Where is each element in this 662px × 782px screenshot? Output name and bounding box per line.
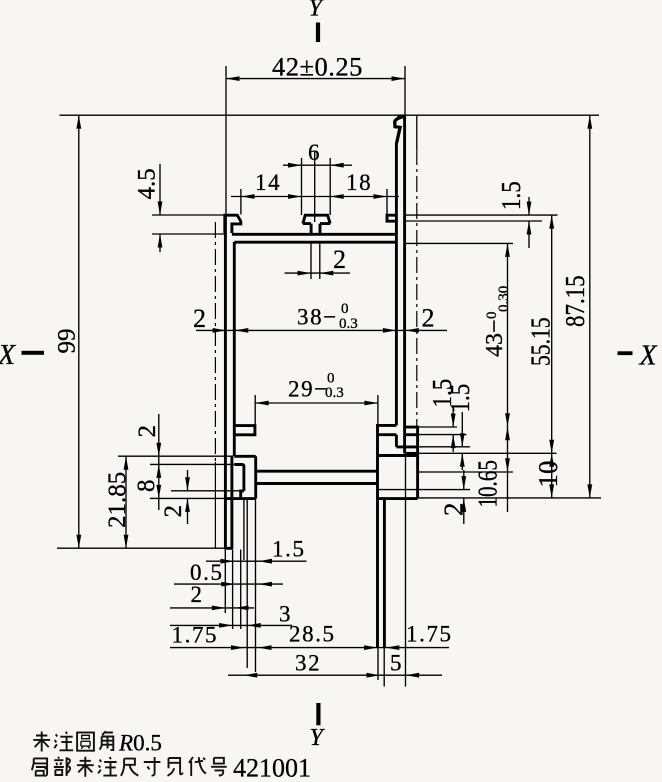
dim line 2/38/2 y=330 <box>196 329 447 331</box>
arrows 2/38/2 <box>213 328 227 333</box>
svg-text:2: 2 <box>191 582 204 607</box>
extension x=378 below leg <box>377 648 379 680</box>
axis X right <box>618 351 633 355</box>
arrows 2 bottom-left <box>212 606 226 611</box>
arrows 0.5 bottom-left <box>221 582 235 587</box>
arrows 55.15 dim <box>549 215 554 229</box>
profile right wall top cap <box>398 114 406 117</box>
profile bottom web bottom face <box>256 482 378 485</box>
leader 2 right upper <box>463 470 465 490</box>
bottom-left reference line y=548 <box>57 547 232 549</box>
svg-text:X: X <box>0 340 16 371</box>
arrows 99 dim <box>76 115 81 129</box>
profile interlock foot <box>241 491 244 499</box>
extension line x=405 (42 dim right) <box>404 66 406 115</box>
axis Y bottom <box>316 703 320 725</box>
leader 1.5 r2 lower <box>461 453 463 470</box>
extension x=255.2 above hook <box>254 395 256 426</box>
dim line 2 tongue <box>285 272 351 274</box>
arrows 2 l1 <box>156 443 161 457</box>
svg-text:1.5: 1.5 <box>497 181 526 210</box>
profile interlock right face <box>254 456 257 498</box>
svg-text:32: 32 <box>295 651 321 676</box>
centre extension x=314.7 <box>314 152 316 222</box>
dim line 6 <box>283 164 352 166</box>
dim line 87.15 <box>589 115 591 498</box>
profile bottom web top face <box>256 470 378 473</box>
extension line x=226 (42 dim left) <box>225 66 227 214</box>
extension y=490.8 left <box>171 490 241 492</box>
svg-text:0: 0 <box>341 301 349 317</box>
arrows 3 bottom-left <box>219 623 233 628</box>
extension stem right <box>319 243 321 279</box>
extension y=464.4 left <box>150 463 234 465</box>
arrows 14 dim <box>241 194 255 199</box>
svg-text:42±0.25: 42±0.25 <box>272 52 363 82</box>
bottom-left extension x=234.3 <box>240 550 242 630</box>
bottom-left extension x=243.8 <box>243 499 245 560</box>
leader 4.5 upper <box>159 164 161 215</box>
extension y=453.3 right <box>406 452 557 454</box>
arrows 1.75 left / 28.5 / 1.75 right <box>231 645 245 650</box>
leader 1.5 top-right lower <box>528 221 530 248</box>
profile right flange <box>387 215 396 221</box>
svg-text:X: X <box>639 341 658 372</box>
bottom-left extension x=255.8 <box>255 499 257 672</box>
dim line 43 and 10.65 x=507.5 <box>507 243 509 512</box>
extension y=215 left for 4.5 <box>152 214 224 216</box>
extension y=434.6 right <box>406 434 467 436</box>
profile leg right face <box>383 499 386 648</box>
svg-text:1.75: 1.75 <box>172 623 219 648</box>
extension x=384.2 below leg <box>383 648 385 687</box>
dim line 42±0.25 <box>226 78 405 80</box>
svg-text:38−: 38− <box>297 305 338 330</box>
profile interlock bottom <box>225 497 255 500</box>
profile centre tongue cap <box>303 215 330 223</box>
leader 1.5 r1 lower <box>452 435 454 452</box>
arrows 21.85 dim <box>124 456 129 470</box>
arrows 32 / 5 <box>244 673 257 678</box>
svg-text:43−: 43− <box>482 319 508 357</box>
profile left wall inner face <box>233 242 236 456</box>
arrows 87.15 dim <box>587 115 592 129</box>
extension y=446.8 right <box>418 446 470 448</box>
profile right hook bottom <box>378 433 397 436</box>
leader 2 l2 lower <box>187 498 189 524</box>
profile right wall inner face <box>395 143 398 426</box>
arrows 2 l2 <box>185 477 190 491</box>
arrows 1.5 r2 <box>460 433 465 447</box>
svg-text:21.85: 21.85 <box>104 472 131 528</box>
svg-text:R0.5: R0.5 <box>118 731 162 756</box>
dim line 21.85 <box>125 456 127 548</box>
extension x=387 for 18 <box>386 189 388 215</box>
extension x=330.2 for 6/18 <box>329 158 331 215</box>
extension y=427 right <box>406 426 457 428</box>
svg-text:2: 2 <box>422 304 435 333</box>
dim line 0.5 bottom-left <box>174 583 283 585</box>
profile tab2 top <box>396 445 417 448</box>
svg-text:2: 2 <box>333 245 346 274</box>
leader 1.5 r2 upper <box>461 412 463 447</box>
profile interlock channel <box>234 465 244 491</box>
phantom line right solid top <box>416 116 418 149</box>
arrows 1.5 bottom-left <box>221 559 235 564</box>
leader 4.5 lower <box>159 234 161 252</box>
profile left flange <box>225 215 241 233</box>
dim line 2 bottom-left <box>170 607 254 609</box>
extension y=215 right for 1.5/55.15 <box>406 214 558 216</box>
arrows 2 tongue <box>298 271 312 276</box>
profile top plate top face <box>232 233 397 236</box>
profile block right face <box>416 435 419 499</box>
extension x=405.5 right of leg <box>405 455 407 687</box>
profile block top <box>378 454 418 457</box>
extension stem left <box>310 243 312 279</box>
svg-text:2: 2 <box>160 505 187 518</box>
svg-text:2: 2 <box>134 425 161 438</box>
profile centre tongue stem <box>311 224 320 235</box>
svg-text:10.65: 10.65 <box>473 460 503 507</box>
arrows 18 dim <box>330 194 344 199</box>
svg-text:1.75: 1.75 <box>406 622 453 647</box>
dim line 99 <box>78 115 80 548</box>
arrows 1.5 r1 <box>451 414 456 428</box>
profile right wall outer face <box>403 116 406 454</box>
svg-text:14: 14 <box>255 170 281 195</box>
svg-text:1.5: 1.5 <box>446 384 475 413</box>
dim line 1.5 bottom-left <box>206 560 307 562</box>
leader 1.5 top-right upper <box>528 197 530 215</box>
profile leg left face <box>376 499 379 648</box>
dim line 3 bottom-left <box>170 624 292 626</box>
extension y=489.6 right <box>418 489 470 491</box>
arrows 10 dim <box>549 453 554 467</box>
profile tab1 <box>405 427 418 435</box>
extension y=243.4 right for 43 <box>406 242 513 244</box>
note line 2: 局部未注尺寸见代号 421001 <box>32 758 47 775</box>
arrows 6 dim <box>288 163 302 168</box>
leader 2 right lower <box>463 498 465 524</box>
arrows 1.5 top-right <box>527 202 532 216</box>
profile block bottom <box>376 497 417 500</box>
svg-text:18: 18 <box>346 170 372 195</box>
extension y=498.4 left <box>150 497 225 499</box>
svg-text:4.5: 4.5 <box>134 168 161 199</box>
svg-text:55.15: 55.15 <box>526 317 556 366</box>
svg-text:0.3: 0.3 <box>325 385 344 401</box>
svg-text:2: 2 <box>439 503 469 517</box>
svg-text:5: 5 <box>390 651 403 676</box>
bottom-right reference line y=498 <box>418 497 601 499</box>
svg-text:10: 10 <box>533 461 563 488</box>
svg-text:421001: 421001 <box>233 754 311 782</box>
arrows 29 dim <box>255 401 269 406</box>
arrows 8 dim <box>156 464 161 478</box>
svg-text:8: 8 <box>133 480 160 493</box>
extension y=234 left for 4.5 <box>152 233 226 235</box>
extension x=377.9 above hook <box>377 395 379 425</box>
dash-dot phantom line left <box>214 222 216 462</box>
bottom-left extension x=231.9 <box>232 550 234 629</box>
arrows 4.5 dim <box>158 202 163 216</box>
solid lower part of left phantom <box>214 462 216 548</box>
arrows 43 dim <box>505 243 510 257</box>
leader 2 l1 upper <box>158 414 160 456</box>
dim line 14 and 18 <box>231 196 399 198</box>
profile right hook top and block left face <box>378 425 397 498</box>
dim line 1.75/28.5/1.75 <box>170 647 449 649</box>
svg-text:0.30: 0.30 <box>496 286 512 312</box>
note line 1: 未注圆角 R0.5 <box>33 732 50 752</box>
dim line 29 y=403 <box>255 402 378 404</box>
svg-text:99: 99 <box>54 329 81 354</box>
svg-text:2: 2 <box>193 304 206 333</box>
profile left fin end cap <box>224 547 233 550</box>
profile interlock top <box>234 455 255 458</box>
bottom-left extension x=225.9 <box>224 550 226 613</box>
svg-text:0.3: 0.3 <box>339 316 358 332</box>
bottom-left extension x=238.6 <box>246 499 248 668</box>
svg-text:29−: 29− <box>288 377 329 402</box>
profile tab2 bottom <box>405 452 418 455</box>
extension y=472 right <box>418 471 513 473</box>
dim line 8 <box>158 456 160 510</box>
extension y=221 right <box>406 220 542 222</box>
leader 2 l2 upper <box>187 470 189 491</box>
dim line 55.15 and 10 x=551.7 <box>551 215 553 498</box>
extension y=456.2 left <box>118 455 233 457</box>
arrows 10.65 dim <box>505 427 510 441</box>
profile left hook <box>234 426 255 435</box>
profile left wall outer face <box>224 215 227 548</box>
leader 1.5 r1 upper <box>452 407 454 427</box>
extension x=301.5 for 6/14 <box>301 158 303 215</box>
svg-text:28.5: 28.5 <box>289 622 336 647</box>
dash-dot phantom line right <box>416 149 418 427</box>
svg-text:1.5: 1.5 <box>272 537 306 562</box>
profile right wall inner segment <box>395 435 398 447</box>
arrows 42 dim <box>226 76 240 81</box>
profile top plate bottom face <box>234 241 396 244</box>
profile left lower fin inner face <box>230 456 233 548</box>
dim line 32/5 <box>228 674 442 676</box>
internal edge y=489.6 <box>378 489 417 491</box>
svg-text:6: 6 <box>308 140 321 165</box>
top reference line y=115 <box>60 114 600 116</box>
svg-text:87.15: 87.15 <box>561 275 590 327</box>
extension x=240.9 for 14 <box>240 189 242 215</box>
arrows 2 right <box>461 476 466 490</box>
